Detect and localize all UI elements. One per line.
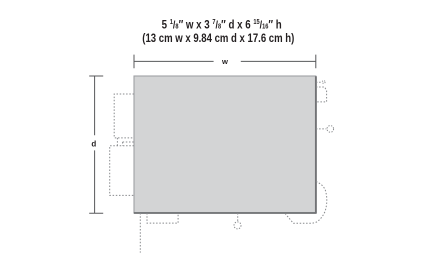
right tiny circle (dashed) xyxy=(322,81,325,84)
svg-text:(13 cm w x 9.84 cm d x 17.6 cm: (13 cm w x 9.84 cm d x 17.6 cm h) xyxy=(142,32,294,45)
bottom small bay (dashed) xyxy=(147,213,178,223)
right mid circle (dashed) xyxy=(327,126,334,133)
svg-text:w: w xyxy=(221,57,228,66)
right mid pipe line (dashed) xyxy=(316,128,326,130)
left step detail (dashed) xyxy=(115,138,134,146)
bottom circle detail (dashed) xyxy=(234,222,241,229)
footprint darker bottom edge xyxy=(134,212,317,214)
right top pipe line (dashed) xyxy=(316,81,322,83)
bottom stem (dashed) xyxy=(237,213,239,222)
right chimney box (dashed) xyxy=(316,87,327,102)
left overhang upper (dashed) xyxy=(114,94,134,137)
footprint rectangle xyxy=(134,76,316,213)
footprint darker right edge xyxy=(315,76,317,213)
d dimension line xyxy=(89,76,103,213)
bottom long pipe line (dashed) xyxy=(139,213,141,253)
w dimension line xyxy=(134,55,316,69)
left overhang lower (dashed) xyxy=(110,146,134,196)
svg-text:d: d xyxy=(91,139,96,148)
corner tank outline (dashed) xyxy=(285,182,327,224)
svg-text:5 1/8″ w x 3 7/8″ d x 6 15/16″: 5 1/8″ w x 3 7/8″ d x 6 15/16″ h xyxy=(162,18,282,31)
